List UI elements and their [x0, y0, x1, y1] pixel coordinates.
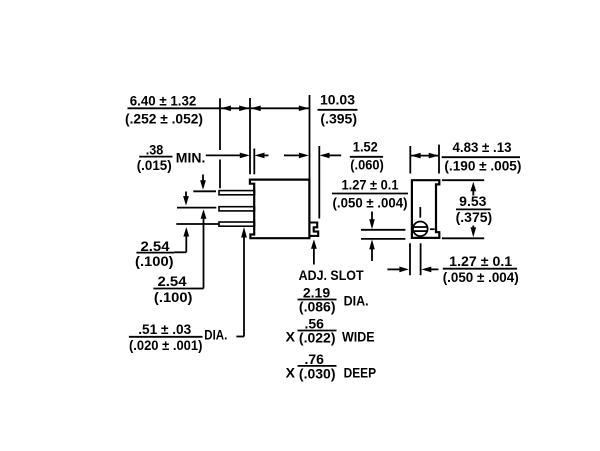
svg-text:X: X: [286, 329, 296, 345]
svg-text:(.100): (.100): [154, 289, 193, 305]
svg-text:MIN.: MIN.: [176, 150, 206, 166]
svg-text:(.060): (.060): [350, 157, 384, 173]
svg-text:.38: .38: [146, 141, 164, 157]
svg-text:DIA.: DIA.: [344, 293, 369, 309]
svg-text:(.050 ± .004): (.050 ± .004): [443, 269, 519, 285]
svg-text:1.27 ± 0.1: 1.27 ± 0.1: [449, 253, 512, 269]
svg-text:10.03: 10.03: [320, 91, 355, 107]
svg-text:DEEP: DEEP: [344, 364, 377, 380]
svg-text:1.52: 1.52: [353, 138, 378, 154]
svg-text:WIDE: WIDE: [342, 329, 375, 345]
svg-text:(.100): (.100): [135, 253, 174, 269]
svg-text:6.40 ± 1.32: 6.40 ± 1.32: [130, 93, 197, 109]
svg-text:ADJ. SLOT: ADJ. SLOT: [299, 267, 364, 283]
svg-text:2.54: 2.54: [141, 238, 170, 254]
svg-text:2.54: 2.54: [158, 273, 187, 289]
svg-text:DIA.: DIA.: [204, 327, 227, 343]
svg-text:(.050 ± .004): (.050 ± .004): [333, 194, 408, 210]
svg-text:(.252 ± .052): (.252 ± .052): [125, 110, 203, 126]
svg-text:.51 ± .03: .51 ± .03: [138, 321, 191, 337]
svg-text:(.375): (.375): [456, 209, 493, 225]
svg-text:(.395): (.395): [320, 110, 357, 126]
svg-text:(.022): (.022): [299, 330, 336, 346]
svg-text:(.190 ± .005): (.190 ± .005): [444, 158, 521, 174]
svg-text:(.030): (.030): [299, 365, 336, 381]
svg-text:X: X: [286, 364, 296, 380]
svg-text:9.53: 9.53: [459, 193, 486, 209]
svg-text:(.086): (.086): [299, 299, 336, 315]
svg-text:4.83 ± .13: 4.83 ± .13: [453, 139, 512, 155]
svg-text:(.015): (.015): [137, 157, 172, 173]
svg-text:1.27 ± 0.1: 1.27 ± 0.1: [342, 177, 399, 193]
svg-text:(.020 ± .001): (.020 ± .001): [129, 337, 203, 353]
